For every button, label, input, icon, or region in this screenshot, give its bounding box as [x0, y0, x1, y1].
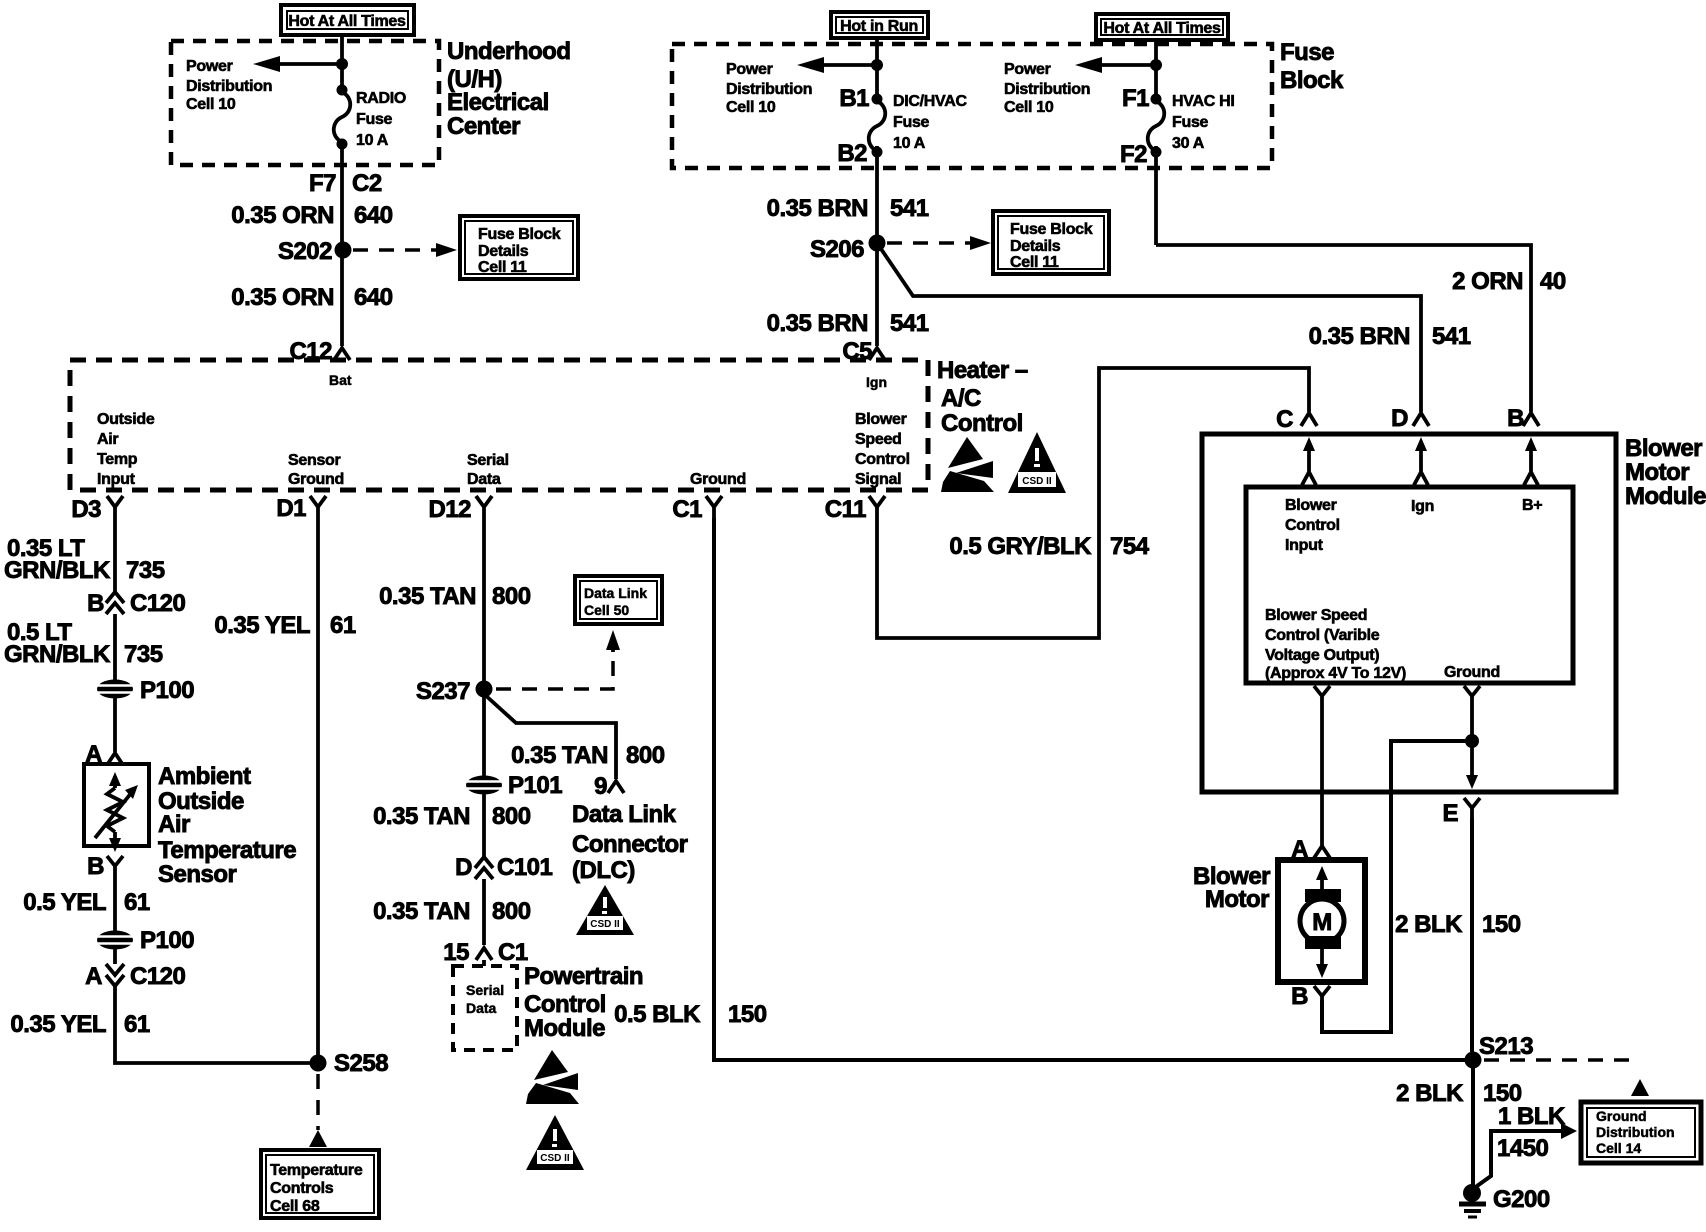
svg-text:Ambient: Ambient — [158, 763, 251, 790]
hot-at-all-times label box 2 — [1096, 14, 1228, 40]
splice S258 — [310, 1050, 389, 1077]
svg-text:Control: Control — [1285, 517, 1340, 534]
label Power Distribution Cell 10 — [186, 58, 272, 113]
wire pin E to S213 (2 BLK 150) — [1470, 818, 1474, 1060]
svg-text:Hot At All Times: Hot At All Times — [288, 13, 406, 30]
label Serial Data — [467, 452, 509, 488]
ESD warning triangle (PCM) — [526, 1050, 579, 1104]
svg-text:A: A — [85, 963, 102, 990]
fuse block details cell 11 box (right) — [993, 211, 1109, 274]
ESD warning triangle (heater) — [941, 437, 994, 492]
svg-text:640: 640 — [354, 202, 393, 229]
label 0.5 GRY/BLK 754 — [949, 533, 1149, 560]
svg-text:Serial: Serial — [467, 452, 509, 469]
wire hot-at-all-times 2 to HVAC HI fuse — [1154, 40, 1158, 245]
wire branch to Power Distribution — [278, 62, 342, 66]
label Fuse Block — [1280, 39, 1344, 94]
svg-text:D12: D12 — [428, 496, 471, 523]
svg-text:P101: P101 — [508, 772, 562, 799]
pin D12 connector — [428, 496, 492, 523]
svg-text:B1: B1 — [839, 85, 869, 112]
svg-text:541: 541 — [890, 310, 929, 337]
svg-text:Ign: Ign — [1411, 498, 1434, 515]
pin C11 connector — [825, 496, 885, 523]
svg-text:B: B — [1291, 983, 1308, 1010]
svg-text:Ground: Ground — [690, 471, 746, 488]
data link cell 50 box — [575, 576, 662, 624]
label 0.35 ORN 640 — [231, 202, 392, 229]
splice S206 — [810, 235, 886, 264]
svg-text:0.35 TAN: 0.35 TAN — [373, 898, 470, 925]
svg-text:E: E — [1442, 800, 1458, 827]
label 0.5 LT GRN/BLK 735 — [4, 619, 163, 668]
pin B connector (motor) — [1291, 983, 1330, 1010]
label 0.35 BRN 541 (right) — [1309, 323, 1471, 350]
splice S202 — [278, 238, 352, 265]
label Ambient Outside Air Temperature Sensor — [158, 763, 296, 888]
label 0.35 TAN 800 (lower) — [373, 898, 531, 925]
pin A connector (motor) — [1291, 836, 1330, 863]
svg-text:D: D — [455, 854, 472, 881]
underhood electrical center dashed box — [171, 41, 439, 165]
svg-text:F7: F7 — [309, 170, 336, 197]
wire S213 to G200 — [1471, 1060, 1475, 1188]
svg-text:D: D — [1391, 405, 1408, 432]
svg-text:GRN/BLK: GRN/BLK — [4, 557, 111, 584]
svg-text:GRN/BLK: GRN/BLK — [4, 641, 111, 668]
label HVAC HI Fuse 30 A — [1172, 93, 1235, 152]
pass-through connector P100 (lower) — [97, 927, 194, 954]
svg-text:Blower: Blower — [855, 411, 907, 428]
connector A into sensor — [85, 741, 123, 768]
svg-text:Fuse: Fuse — [893, 114, 930, 131]
ambient outside air temperature sensor — [84, 764, 149, 852]
connector B C120 (upper) — [87, 590, 185, 617]
svg-text:Module: Module — [1625, 483, 1706, 510]
dashed reference wire S258 to temperature controls — [316, 1074, 320, 1130]
svg-text:P100: P100 — [140, 677, 194, 704]
internal pin arrow D — [1414, 437, 1428, 485]
pin D3 connector — [71, 496, 123, 523]
wire F2 to module pin B (2 ORN 40) — [1156, 245, 1531, 412]
connector B below sensor — [87, 853, 123, 880]
label 0.35 TAN 800 (DLC) — [511, 742, 665, 769]
svg-text:2 ORN: 2 ORN — [1452, 268, 1523, 295]
label 1 BLK 1450 — [1497, 1103, 1566, 1162]
svg-text:Data Link: Data Link — [584, 585, 647, 601]
arrowhead to fuse block details — [436, 243, 457, 257]
label 2 ORN 40 — [1452, 268, 1566, 295]
svg-text:C1: C1 — [672, 496, 702, 523]
wire branch to power distribution (right fuse) — [1100, 63, 1156, 67]
svg-text:40: 40 — [1540, 268, 1566, 295]
svg-text:D3: D3 — [71, 496, 101, 523]
svg-text:Controls: Controls — [270, 1180, 334, 1197]
svg-text:Ground: Ground — [288, 471, 344, 488]
svg-text:15: 15 — [443, 939, 469, 966]
svg-text:Distribution: Distribution — [1004, 81, 1090, 98]
svg-text:Outside: Outside — [97, 411, 155, 428]
svg-text:Blower: Blower — [1625, 435, 1702, 462]
junction dot — [1150, 59, 1162, 71]
svg-text:Cell 11: Cell 11 — [478, 259, 527, 276]
svg-text:(Approx 4V To 12V): (Approx 4V To 12V) — [1265, 665, 1406, 682]
svg-text:Input: Input — [97, 471, 136, 488]
svg-text:Connector: Connector — [572, 831, 688, 858]
module inner box — [1246, 487, 1573, 683]
label Blower Control Input — [1285, 497, 1340, 554]
label 0.5 BLK 150 — [614, 1001, 767, 1028]
serial data dashed box (PCM) — [453, 966, 517, 1050]
svg-text:Cell 11: Cell 11 — [1010, 254, 1059, 271]
svg-text:640: 640 — [354, 284, 393, 311]
svg-text:CSD II: CSD II — [590, 919, 620, 930]
dashed reference wire S213 to ground distribution — [1484, 1058, 1640, 1062]
label Blower Motor Module — [1625, 435, 1706, 510]
blower motor box — [1278, 860, 1365, 982]
wire branch to power distribution (left fuse) — [822, 63, 877, 67]
svg-text:0.35 BRN: 0.35 BRN — [1309, 323, 1410, 350]
svg-text:541: 541 — [890, 195, 929, 222]
svg-text:A/C: A/C — [941, 385, 981, 412]
arrowhead power distribution — [797, 57, 824, 73]
svg-text:F1: F1 — [1122, 85, 1149, 112]
svg-text:Motor: Motor — [1205, 886, 1269, 913]
svg-text:Power: Power — [1004, 61, 1051, 78]
svg-text:S213: S213 — [1479, 1033, 1533, 1060]
pin E connector — [1442, 798, 1480, 827]
svg-text:DIC/HVAC: DIC/HVAC — [893, 93, 967, 110]
connector C5 — [842, 338, 885, 365]
reference triangle ground distribution — [1631, 1079, 1649, 1096]
junction dot — [336, 58, 348, 70]
svg-text:61: 61 — [124, 889, 150, 916]
svg-text:Air: Air — [158, 811, 190, 838]
svg-text:Cell 68: Cell 68 — [270, 1198, 320, 1215]
svg-text:B: B — [1507, 405, 1524, 432]
label 0.35 TAN 800 (mid) — [373, 803, 531, 830]
label 0.35 ORN 640 (lower) — [231, 284, 392, 311]
svg-text:S237: S237 — [416, 678, 470, 705]
connector A C120 (lower) — [85, 963, 185, 990]
svg-text:Fuse: Fuse — [356, 111, 393, 128]
fuse block details cell 11 box (left) — [460, 216, 578, 279]
svg-text:Blower Speed: Blower Speed — [1265, 607, 1367, 624]
svg-text:Cell 50: Cell 50 — [584, 602, 629, 618]
wire D1 sensor ground to S258 — [316, 518, 320, 1063]
svg-text:Data: Data — [467, 471, 501, 488]
svg-text:61: 61 — [124, 1011, 150, 1038]
label Heater A/C Control — [937, 357, 1028, 437]
pin C1 connector — [672, 496, 722, 523]
wire D3 outside air temp input — [115, 518, 311, 1063]
heater A/C control dashed box — [70, 360, 928, 490]
internal pin arrow B — [1524, 437, 1538, 485]
svg-text:0.5 BLK: 0.5 BLK — [614, 1001, 701, 1028]
blower motor module outer box — [1202, 434, 1616, 792]
svg-text:800: 800 — [492, 583, 531, 610]
svg-text:Sensor: Sensor — [158, 861, 237, 888]
label F7 C2 — [309, 170, 382, 197]
ground output connector below inner box — [1464, 686, 1480, 737]
label 0.35 YEL 61 (left) — [10, 1011, 149, 1038]
svg-text:Cell 14: Cell 14 — [1596, 1140, 1641, 1156]
svg-text:(DLC): (DLC) — [572, 857, 635, 884]
svg-text:800: 800 — [492, 898, 531, 925]
dashed reference wire S202 to fuse block details — [353, 248, 437, 252]
svg-text:0.35 YEL: 0.35 YEL — [10, 1011, 106, 1038]
svg-text:150: 150 — [728, 1001, 767, 1028]
svg-text:Ign: Ign — [866, 374, 887, 390]
svg-text:Temperature: Temperature — [158, 837, 296, 864]
label Underhood (U/H) Electrical Center — [447, 38, 570, 140]
svg-text:0.5 YEL: 0.5 YEL — [23, 889, 106, 916]
svg-text:0.35 TAN: 0.35 TAN — [511, 742, 608, 769]
svg-text:S206: S206 — [810, 236, 864, 263]
svg-text:Details: Details — [478, 243, 529, 260]
pin D connector (module) — [1391, 405, 1429, 432]
wire D12 serial data to PCM — [482, 518, 486, 966]
svg-text:Block: Block — [1280, 67, 1344, 94]
svg-text:B2: B2 — [837, 140, 867, 167]
svg-text:C120: C120 — [130, 590, 186, 617]
splice S213 — [1465, 1033, 1534, 1069]
svg-text:Powertrain: Powertrain — [524, 963, 643, 990]
svg-text:D1: D1 — [276, 495, 306, 522]
svg-text:541: 541 — [1432, 323, 1471, 350]
svg-text:2 BLK: 2 BLK — [1396, 1080, 1464, 1107]
svg-text:F2: F2 — [1120, 141, 1147, 168]
connector C12 — [289, 338, 350, 365]
svg-text:CSD II: CSD II — [1022, 476, 1052, 487]
pin 15 C1 connector PCM — [443, 939, 528, 966]
svg-text:HVAC HI: HVAC HI — [1172, 93, 1235, 110]
svg-text:Control (Varible: Control (Varible — [1265, 627, 1380, 644]
svg-text:150: 150 — [1482, 911, 1521, 938]
svg-text:Hot At All Times: Hot At All Times — [1103, 20, 1221, 37]
svg-text:Fuse Block: Fuse Block — [478, 226, 561, 243]
label 0.35 TAN 800 (top) — [379, 583, 531, 610]
connector D C101 — [455, 854, 552, 881]
svg-text:Heater –: Heater – — [937, 357, 1028, 384]
svg-text:0.35 BRN: 0.35 BRN — [767, 310, 868, 337]
CSD II warning triangle (PCM) — [526, 1115, 584, 1170]
ground symbol G200 — [1459, 1184, 1550, 1217]
svg-text:Cell 10: Cell 10 — [186, 96, 236, 113]
label RADIO Fuse 10 A — [356, 90, 406, 149]
wire ground branch to motor B return — [1322, 741, 1472, 1032]
svg-text:Center: Center — [447, 113, 520, 140]
CSD II warning triangle (heater) — [1008, 432, 1066, 493]
svg-text:Underhood: Underhood — [447, 38, 570, 65]
svg-text:Cell 10: Cell 10 — [1004, 99, 1054, 116]
svg-text:P100: P100 — [140, 927, 194, 954]
svg-text:1 BLK: 1 BLK — [1498, 1103, 1566, 1130]
svg-text:Distribution: Distribution — [726, 81, 812, 98]
pin B connector (module) — [1507, 405, 1539, 432]
svg-text:10 A: 10 A — [893, 135, 926, 152]
dashed reference wire S237 to data link — [496, 654, 613, 689]
svg-text:Blower: Blower — [1285, 497, 1337, 514]
pass-through connector P100 (upper) — [97, 677, 194, 704]
svg-text:754: 754 — [1110, 533, 1150, 560]
svg-text:0.35 TAN: 0.35 TAN — [373, 803, 470, 830]
label 0.35 YEL 61 (D1) — [214, 612, 355, 639]
svg-text:30 A: 30 A — [1172, 135, 1205, 152]
pin 9 connector DLC — [594, 773, 624, 800]
svg-text:Temp: Temp — [97, 451, 138, 468]
svg-text:0.35 ORN: 0.35 ORN — [231, 202, 334, 229]
svg-text:Fuse Block: Fuse Block — [1010, 221, 1093, 238]
label Data Link Connector (DLC) — [572, 801, 688, 884]
arrowhead up to data link box — [611, 642, 615, 652]
wire bat feed from Hot At All Times to C12 — [340, 35, 344, 346]
arrowhead power distribution left — [253, 56, 280, 72]
label Power Distribution Cell 10 (middle) — [726, 61, 812, 116]
svg-text:Fuse: Fuse — [1280, 39, 1334, 66]
label 2 BLK 150 (lower) — [1396, 1080, 1522, 1107]
dashed reference wire S206 to fuse block details — [887, 241, 972, 245]
svg-text:Data Link: Data Link — [572, 801, 677, 828]
label Blower Speed Control (Varible Voltage Output) — [1265, 607, 1406, 682]
svg-text:C120: C120 — [130, 963, 186, 990]
svg-text:C2: C2 — [352, 170, 382, 197]
wire C1 ground to S213 — [714, 518, 1473, 1060]
svg-text:Distribution: Distribution — [1596, 1124, 1675, 1140]
svg-text:800: 800 — [626, 742, 665, 769]
label Sensor Ground — [288, 452, 344, 488]
label Blower Motor — [1193, 863, 1270, 913]
svg-text:B+: B+ — [1522, 497, 1542, 514]
svg-text:Control: Control — [855, 451, 910, 468]
wire ground to pin E with arrow — [1470, 741, 1474, 775]
label 0.35 LT GRN/BLK 735 — [4, 535, 165, 584]
svg-text:Hot in Run: Hot in Run — [840, 18, 918, 35]
label 0.35 BRN 541 (below S206) — [767, 310, 929, 337]
svg-text:Electrical: Electrical — [447, 89, 549, 116]
svg-text:Input: Input — [1285, 537, 1324, 554]
wire 1 BLK 1450 to ground distribution — [1477, 1131, 1563, 1186]
svg-text:S202: S202 — [278, 238, 332, 265]
blower control output connector below inner box — [1314, 686, 1330, 842]
arrowhead 1 BLK to ground distribution — [1561, 1123, 1577, 1139]
svg-text:10 A: 10 A — [356, 132, 389, 149]
svg-text:Power: Power — [726, 61, 773, 78]
junction dot — [871, 59, 883, 71]
svg-text:B: B — [87, 853, 104, 880]
pass-through connector P101 — [466, 772, 562, 799]
splice S237 — [416, 678, 493, 705]
svg-text:B: B — [87, 590, 104, 617]
svg-text:Data: Data — [466, 1000, 497, 1016]
svg-text:735: 735 — [124, 641, 163, 668]
svg-text:Bat: Bat — [329, 372, 352, 388]
svg-text:Ground: Ground — [1444, 664, 1500, 681]
fuse DIC/HVAC 10A — [869, 94, 886, 158]
label Power Distribution Cell 10 (right) — [1004, 61, 1090, 116]
wire S206 to module pin D (0.35 BRN 541) — [877, 243, 1421, 412]
label DIC/HVAC Fuse 10 A — [893, 93, 967, 152]
CSD II warning triangle (DLC) — [576, 885, 634, 935]
svg-text:Serial: Serial — [466, 982, 504, 998]
pin D1 connector — [276, 495, 326, 522]
svg-text:0.35 TAN: 0.35 TAN — [379, 583, 476, 610]
svg-text:Distribution: Distribution — [186, 78, 272, 95]
temperature controls cell 68 box — [261, 1150, 379, 1218]
svg-text:Temperature: Temperature — [270, 1162, 363, 1179]
svg-text:C: C — [1276, 406, 1293, 433]
hot-at-all-times label box 1 — [281, 5, 414, 35]
svg-text:Signal: Signal — [855, 471, 901, 488]
svg-text:Fuse: Fuse — [1172, 114, 1209, 131]
wire C11 blower speed control signal to module pin C — [877, 368, 1309, 638]
svg-text:Details: Details — [1010, 238, 1061, 255]
svg-text:RADIO: RADIO — [356, 90, 406, 107]
wire hot-in-run to C5 — [875, 38, 879, 346]
label Powertrain Control Module — [524, 963, 643, 1042]
svg-text:Speed: Speed — [855, 431, 902, 448]
arrowhead power distribution right — [1075, 57, 1102, 73]
svg-text:Power: Power — [186, 58, 233, 75]
label 0.35 BRN 541 (above S206) — [767, 195, 929, 222]
svg-text:Air: Air — [97, 431, 118, 448]
svg-text:0.35 YEL: 0.35 YEL — [214, 612, 310, 639]
svg-text:0.35 ORN: 0.35 ORN — [231, 284, 334, 311]
svg-text:M: M — [1312, 909, 1332, 936]
fuse RADIO 10 A — [334, 85, 351, 150]
svg-text:Voltage Output): Voltage Output) — [1265, 647, 1379, 664]
reference triangle temperature controls — [309, 1130, 327, 1147]
svg-text:61: 61 — [330, 612, 356, 639]
label Blower Speed Control Signal — [855, 411, 910, 488]
svg-text:800: 800 — [492, 803, 531, 830]
svg-text:C1: C1 — [498, 939, 528, 966]
svg-text:Motor: Motor — [1625, 459, 1689, 486]
svg-text:G200: G200 — [1493, 1186, 1550, 1213]
motor symbol M — [1300, 866, 1344, 978]
arrowhead to fuse block details 2 — [970, 236, 991, 250]
hot-in-run label box — [831, 12, 928, 38]
ground distribution cell 14 box — [1581, 1102, 1701, 1163]
label Outside Air Temp Input — [97, 411, 155, 488]
svg-text:0.35 BRN: 0.35 BRN — [767, 195, 868, 222]
pin C connector (module) — [1276, 406, 1317, 433]
internal pin arrow C — [1302, 437, 1316, 485]
label 2 BLK 150 (upper) — [1395, 911, 1521, 938]
svg-text:9: 9 — [594, 773, 607, 800]
svg-text:S258: S258 — [334, 1050, 388, 1077]
svg-text:Ground: Ground — [1596, 1108, 1647, 1124]
svg-text:0.5 GRY/BLK: 0.5 GRY/BLK — [949, 533, 1092, 560]
wire S237 branch to DLC pin 9 — [484, 694, 616, 779]
svg-text:2 BLK: 2 BLK — [1395, 911, 1463, 938]
fuse block dashed box — [672, 44, 1272, 168]
svg-text:C101: C101 — [497, 854, 553, 881]
svg-text:1450: 1450 — [1497, 1135, 1549, 1162]
label 0.5 YEL 61 — [23, 889, 150, 916]
svg-text:Cell 10: Cell 10 — [726, 99, 776, 116]
svg-text:CSD II: CSD II — [540, 1153, 570, 1164]
svg-text:735: 735 — [126, 557, 165, 584]
junction dot ground branch — [1465, 734, 1479, 748]
svg-text:Sensor: Sensor — [288, 452, 341, 469]
fuse HVAC HI 30A — [1148, 94, 1165, 158]
svg-text:Control: Control — [941, 410, 1023, 437]
svg-text:C11: C11 — [825, 496, 866, 523]
svg-text:Module: Module — [524, 1015, 605, 1042]
svg-text:Control: Control — [524, 991, 606, 1018]
